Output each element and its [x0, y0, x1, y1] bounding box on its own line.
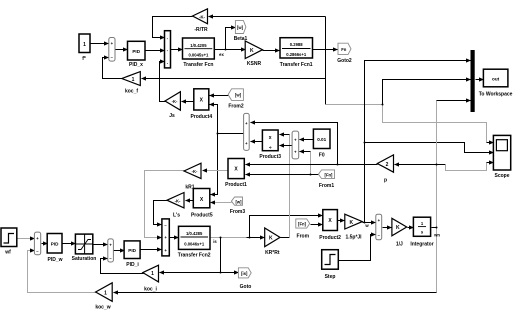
svg-text:From3: From3 — [230, 209, 246, 215]
svg-text:K: K — [250, 48, 254, 54]
svg-text:Js: Js — [169, 113, 175, 119]
svg-text:KR*Rt: KR*Rt — [265, 250, 280, 256]
svg-text:Transfer Fcn: Transfer Fcn — [183, 62, 213, 68]
svg-text:Saturation: Saturation — [72, 256, 97, 262]
svg-text:[w]: [w] — [237, 25, 244, 30]
svg-text:[w]: [w] — [235, 200, 242, 205]
svg-text:1/0.4285: 1/0.4285 — [186, 231, 203, 236]
svg-text:-K-: -K- — [199, 15, 205, 20]
svg-text:From1: From1 — [319, 183, 335, 189]
svg-text:KSNR: KSNR — [247, 61, 262, 67]
svg-text:1/0.4205: 1/0.4205 — [190, 43, 207, 48]
svg-text:Product5: Product5 — [191, 213, 213, 219]
svg-text:1.5p*Jl: 1.5p*Jl — [345, 235, 362, 241]
svg-text:K: K — [349, 220, 353, 226]
svg-text:F0: F0 — [319, 153, 325, 159]
svg-text:PID: PID — [132, 49, 140, 54]
svg-text:-K-: -K- — [172, 99, 178, 104]
svg-text:[Fn]: [Fn] — [325, 172, 334, 177]
svg-text:0.2866s+1: 0.2866s+1 — [286, 52, 307, 57]
svg-text:Transfer Fcn1: Transfer Fcn1 — [280, 62, 313, 68]
svg-text:Goto: Goto — [240, 284, 252, 290]
svg-text:Transfer Fcn2: Transfer Fcn2 — [178, 253, 211, 259]
svg-text:1: 1 — [151, 271, 154, 277]
svg-text:Scope: Scope — [494, 173, 509, 179]
svg-text:PID: PID — [128, 248, 136, 253]
svg-text:koc_i: koc_i — [144, 287, 157, 293]
svg-text:PID_w: PID_w — [47, 257, 62, 263]
svg-text:[is]: [is] — [241, 271, 248, 276]
svg-text:Integrator: Integrator — [410, 242, 433, 248]
svg-text:1/J: 1/J — [396, 242, 403, 248]
svg-text:K: K — [396, 225, 400, 231]
svg-text:wn: wn — [433, 233, 440, 238]
svg-text:K: K — [269, 236, 273, 242]
svg-text:koc_w: koc_w — [95, 305, 110, 311]
svg-text:[w]: [w] — [235, 93, 242, 98]
svg-text:2: 2 — [386, 162, 389, 168]
svg-text:Product4: Product4 — [190, 114, 212, 120]
svg-text:Product3: Product3 — [259, 154, 281, 160]
svg-text:÷: ÷ — [269, 145, 272, 151]
svg-text:0.0046s+1: 0.0046s+1 — [184, 242, 205, 247]
svg-text:-R/TR: -R/TR — [194, 27, 208, 33]
svg-text:[Fn]: [Fn] — [298, 222, 307, 227]
svg-text:0.0045s+1: 0.0045s+1 — [188, 53, 209, 58]
svg-text:w: w — [364, 223, 369, 228]
svg-text:wf: wf — [4, 250, 11, 256]
svg-text:koc_f: koc_f — [125, 89, 138, 95]
svg-text:Step: Step — [325, 274, 336, 280]
svg-text:L's: L's — [173, 213, 180, 219]
svg-text:From: From — [297, 234, 310, 240]
svg-text:p: p — [384, 178, 387, 184]
svg-text:PID_x: PID_x — [129, 62, 143, 68]
svg-text:x: x — [269, 135, 272, 141]
svg-text:Goto2: Goto2 — [337, 58, 352, 64]
svg-text:0.01: 0.01 — [317, 137, 326, 142]
svg-text:1: 1 — [104, 291, 107, 297]
svg-text:Fn: Fn — [341, 47, 347, 52]
svg-text:PID: PID — [51, 242, 59, 247]
svg-text:From2: From2 — [228, 104, 244, 110]
svg-text:To Workspace: To Workspace — [479, 92, 513, 98]
svg-text:-K-: -K- — [192, 169, 198, 174]
svg-text:1: 1 — [83, 42, 86, 48]
svg-text:Product1: Product1 — [225, 182, 247, 188]
svg-text:PID_i: PID_i — [126, 262, 139, 268]
svg-text:out: out — [492, 77, 500, 82]
svg-text:ex: ex — [219, 52, 224, 57]
svg-text:f*: f* — [82, 56, 86, 62]
svg-text:1: 1 — [132, 77, 135, 83]
svg-text:Product2: Product2 — [319, 235, 341, 241]
svg-text:-K-: -K- — [175, 199, 181, 204]
svg-text:0.2988: 0.2988 — [290, 42, 303, 47]
